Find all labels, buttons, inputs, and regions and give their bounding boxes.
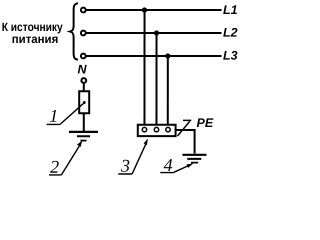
label 1 [47,106,61,126]
brace [70,3,78,60]
junction dot L1 [142,7,147,12]
terminal circle L2 [81,31,86,36]
label 2 [49,157,62,177]
terminal circle L3 [81,54,86,59]
wire L1 [86,9,221,11]
ground item 2 bar2 [77,135,90,137]
terminal circle N [81,78,86,83]
svg-text:PE: PE [196,116,213,130]
leader 2 [61,145,80,175]
label 3 [118,156,132,176]
svg-text:L1: L1 [223,3,238,17]
fuse item 1 [79,91,89,113]
wire PE [176,130,194,154]
label 4 [160,155,174,175]
svg-text:3: 3 [120,156,130,176]
leader 1 [60,105,81,124]
svg-text:L3: L3 [223,49,238,63]
svg-text:2: 2 [50,157,59,177]
wire L3 [86,55,221,57]
arrowhead 3 [144,138,148,145]
block terminal c [166,127,170,131]
wire N to fuse [83,84,85,91]
terminal circle L1 [81,8,86,13]
svg-text:1: 1 [49,106,58,126]
leader 4 [174,166,189,173]
ground item 2 bar1 [69,131,98,133]
removable link tick [183,119,191,121]
junction dot L3 [165,53,170,58]
leader 1 hook [81,101,85,105]
ground item 4 bar2 [187,158,201,160]
removable link slash [177,121,189,136]
wire drop L2 [155,33,157,127]
ground item 4 bar1 [182,154,206,156]
svg-text:N: N [78,62,88,76]
wire fuse to ground [83,113,85,131]
ground item 4 bar3 [191,162,198,164]
arrowhead 4 [186,164,193,168]
junction dot L2 [154,30,159,35]
svg-text:питания: питания [12,32,59,46]
svg-text:L2: L2 [223,26,238,40]
wire drop L1 [143,10,145,127]
leader 3 [132,143,146,174]
node source text "К источнику питания" [2,20,63,46]
ground item 2 bar3 [80,140,86,142]
block terminal a [142,127,146,131]
wire drop L3 [167,56,169,127]
terminal block item 3 [138,125,176,136]
arrowhead 2 [77,141,82,147]
wire L2 [86,32,221,34]
block terminal b [154,127,158,131]
